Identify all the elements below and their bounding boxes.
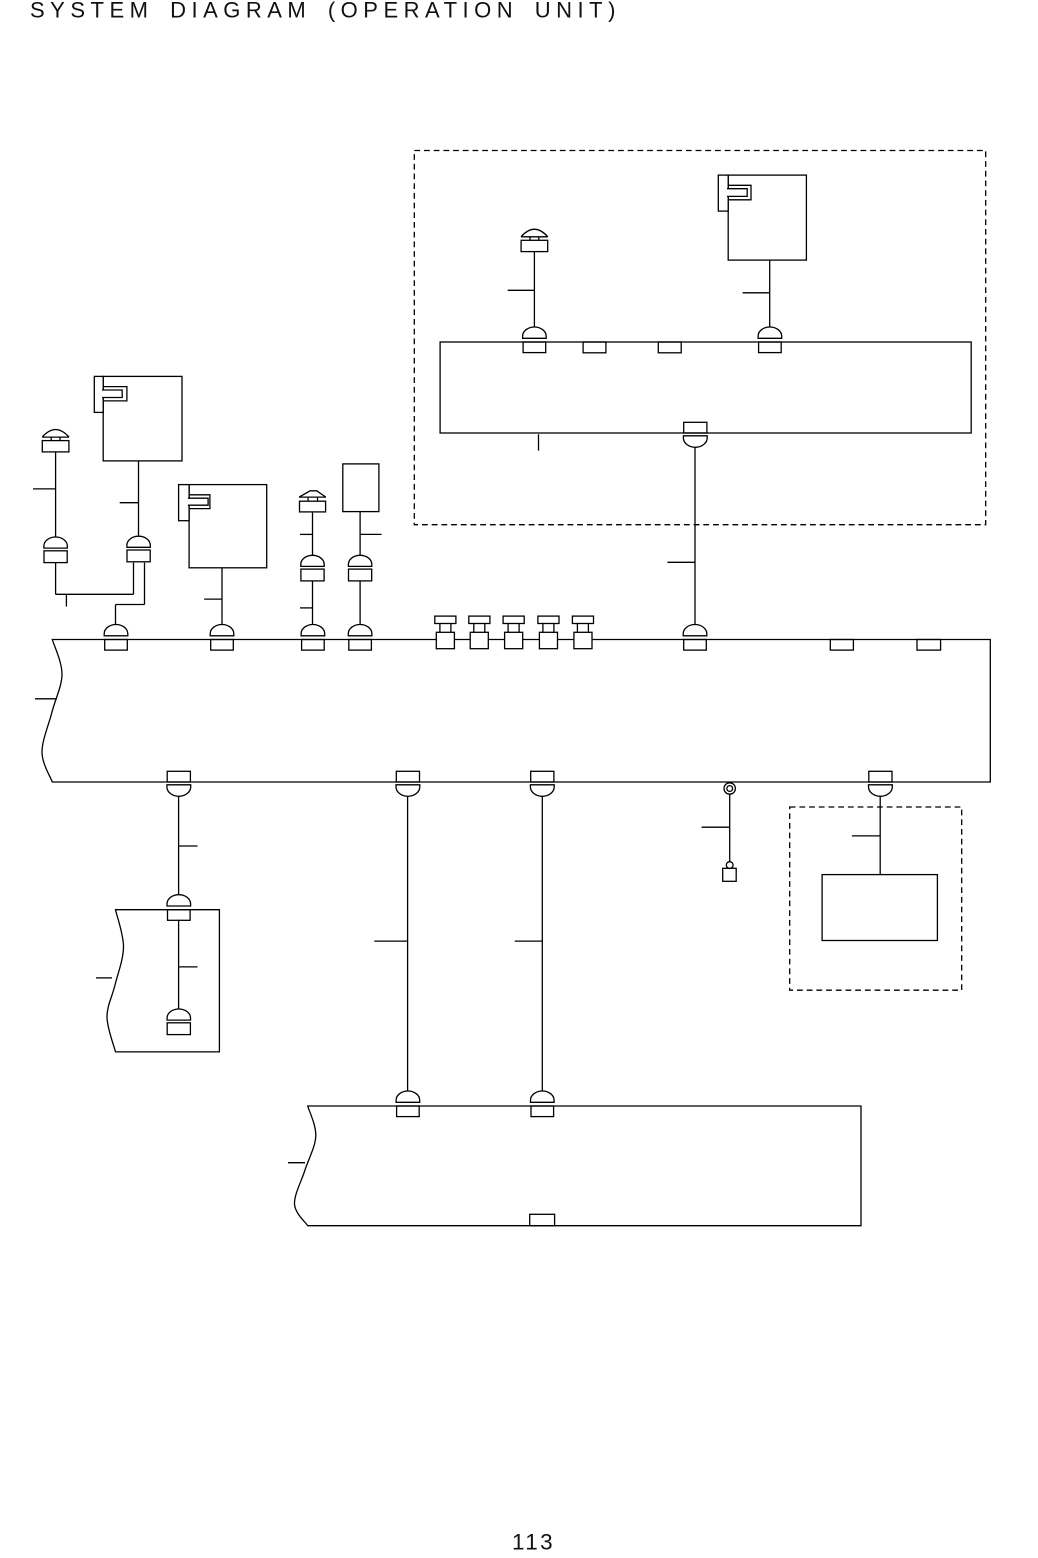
svg-text:SYSTEM DIAGRAM (OPERATION UNIT: SYSTEM DIAGRAM (OPERATION UNIT): [30, 0, 621, 22]
svg-text:113: 113: [512, 1530, 555, 1555]
